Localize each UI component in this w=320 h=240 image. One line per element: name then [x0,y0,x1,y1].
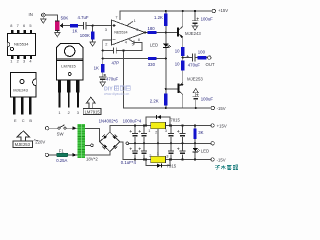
psu capacitor C3 [168,133,174,136]
svg-text:4.7uF: 4.7uF [78,15,89,20]
svg-text:47P: 47P [112,61,120,66]
wire LED to feedback tap [165,48,167,89]
ground arrow below 100K [90,42,95,46]
psu capacitor C2 [139,130,148,137]
LED bias [163,43,171,48]
svg-text:470uF: 470uF [188,62,201,67]
wire 47P to pin8 corner [117,39,142,51]
resistor 1K feedback [101,64,104,73]
wire 100K to ground [92,40,94,43]
svg-text:1: 1 [148,128,150,133]
switch SW [58,125,66,129]
psu capacitor C1 [130,130,139,137]
wire 470uF to ground [102,80,104,82]
wire 7815 gnd pin to mid rail [157,129,159,144]
junction 1.2K rail [165,10,167,12]
capacitor 100uF bottom bypass [192,94,199,100]
wire pot bottom to ground [56,31,58,33]
svg-text:6: 6 [136,27,138,32]
svg-text:470uF: 470uF [106,77,119,82]
junction pin4 line A [122,49,124,51]
svg-text:1K: 1K [72,28,77,33]
ground arrow below IN terminal [41,17,46,23]
plus sign output cap [187,55,189,57]
wire Q1 emitter to 10 ohm [179,34,183,47]
junction bypass right bottom [169,158,171,160]
wire psu cap column 3 bottom [170,143,172,151]
psu capacitor C6 [139,148,148,155]
svg-text:2: 2 [155,129,157,134]
wire bottom bypass cap to ground arrow [195,93,197,96]
svg-text:MJE253: MJE253 [15,142,31,147]
junction at op-amp output [144,31,146,33]
svg-text:1K: 1K [94,65,99,70]
wire psu cap column 4 top [182,126,184,134]
op-amp U1 NE5534 triangle [112,20,145,45]
protection diode bottom [157,164,162,168]
svg-text:8: 8 [138,37,140,42]
terminal IN [41,13,45,17]
svg-text:1: 1 [157,151,159,156]
svg-text:3: 3 [105,27,107,32]
svg-text:100K: 100K [80,33,90,38]
bridge diode D1 [102,134,107,139]
junction dots mid rail [134,142,136,144]
svg-text:5: 5 [132,41,134,46]
annotation arrow MJE253 [13,131,33,148]
wire psu cap column 3 top [170,126,172,134]
svg-text:0.1uF*4: 0.1uF*4 [121,160,137,165]
terminal GND psu [211,142,214,145]
svg-text:5: 5 [29,23,31,28]
wire secondary top to bridge left [85,129,99,142]
svg-text:1: 1 [134,18,136,23]
psu capacitor C8 [177,148,186,155]
resistor 1K input [70,24,78,27]
svg-text:+15V: +15V [218,8,228,13]
wire pot wiper to 1K [62,25,70,27]
resistor 1.2K [164,14,167,27]
psu capacitor C4 [177,130,186,137]
svg-text:7: 7 [115,15,117,20]
svg-text:www.diyaudio.cn: www.diyaudio.cn [104,92,129,96]
svg-text:C: C [22,118,25,123]
wire bias to 2.2K [165,89,167,94]
wire bottom supply rail -15V (amp) [124,51,212,109]
svg-text:-15V: -15V [217,158,226,163]
svg-text:LM7815: LM7815 [61,63,76,68]
watermark DIY audio [104,86,130,96]
svg-text:3: 3 [166,154,168,159]
wire 1.2K bottom lead [165,26,167,33]
protection diode top [156,115,161,119]
svg-text:1.2K: 1.2K [154,15,163,20]
junction bypass left bottom [145,158,147,160]
svg-text:2: 2 [68,110,70,115]
svg-text:7915: 7915 [167,164,177,169]
junction pin2 line B [102,57,104,59]
svg-text:F1: F1 [59,148,65,153]
svg-text:10: 10 [175,62,180,67]
svg-text:MJE243: MJE243 [13,87,28,92]
capacitor 47P [113,48,116,54]
svg-text:1000uF*4: 1000uF*4 [123,118,142,123]
junction dots top raw rail [134,124,136,126]
svg-text:3: 3 [77,110,79,115]
wire 470uF to 100 [196,57,198,59]
svg-text:330: 330 [148,62,156,67]
capacitor 470uF feedback [99,74,106,80]
svg-text:2: 2 [105,42,107,47]
wire bottom bypass cap column [195,100,197,108]
svg-text:OUT: OUT [206,62,215,67]
wire AC live to switch [49,127,58,129]
node junction input [92,25,94,27]
wire top bypass cap to ground [194,24,196,26]
wire bridge top to +raw rail [110,126,211,133]
junction bias MJE253 base [165,88,167,90]
svg-text:0.25A: 0.25A [56,158,67,163]
PSU wires [49,117,211,166]
wire 7915 bypass loop [146,160,170,166]
resistor 3K [193,129,196,140]
wire psu cap column 1 bottom [134,143,136,151]
svg-text:IN: IN [29,12,33,17]
wire Rg 1K to 470uF [102,73,104,77]
psu capacitor C5 [130,148,139,155]
junction node B [165,31,167,33]
label 220V [34,139,38,142]
svg-text:220V: 220V [35,139,45,144]
terminal -15V psu [211,158,214,161]
svg-text:2: 2 [149,153,151,158]
ground arrow above 100uF bottom [193,89,198,93]
junction output node [182,57,184,59]
svg-text:NE5534: NE5534 [114,31,127,35]
terminal AC neutral [45,153,48,156]
terminal center tap [91,144,94,147]
arrow into primary top [72,126,76,130]
wire 330 to bias column [157,57,166,59]
signature 子木整理 drawn as strokes [215,165,238,170]
svg-text:6: 6 [23,23,25,28]
fuse F1 [57,153,69,157]
wire cap to op-amp pin3 [86,25,111,27]
svg-text:NE5534: NE5534 [14,41,29,46]
junction 100uF top rail [194,10,196,12]
svg-text:7: 7 [17,23,19,28]
wire mid rail [128,142,211,144]
junction dots bottom raw rail [134,158,136,160]
annotation arrow LM7915 [83,97,101,114]
arrow into primary bottom [72,153,76,157]
transformer T1 [78,124,86,158]
wire pin5 stub [133,40,135,44]
svg-text:8: 8 [10,23,12,28]
wire node to 100K [92,26,94,32]
svg-text:10: 10 [175,49,180,54]
wire psu cap column 1 top [134,126,136,134]
svg-text:LM7915: LM7915 [85,110,101,115]
terminal AC live [45,127,48,130]
wire bias tap to MJE253 base [166,88,178,90]
terminal +15V amp [212,9,215,12]
junction 100uF bottom rail [195,107,197,109]
wire top supply rail +15V [120,11,213,20]
bridge diode D2 [113,134,118,139]
wire top bypass cap column [194,11,196,21]
svg-text:LED: LED [150,42,158,47]
capacitor 470uF output [193,54,196,62]
wire input from IN terminal to pot [45,15,57,21]
wire 180 to node B [157,32,177,34]
svg-text:50K: 50K [61,15,69,20]
bridge diode D4 [113,144,118,149]
wire bridge right to -raw rail [120,142,211,160]
wire switch to transformer [66,127,77,129]
svg-text:3: 3 [165,128,167,133]
svg-text:B: B [29,118,32,123]
wire lower 10 ohm to Q2 emitter [179,71,183,87]
svg-text:1: 1 [58,110,60,115]
package drawing Q1 MJE243 TO-126 [11,73,37,124]
regulator 7915 [151,156,166,162]
wire Q2 collector to rail [179,91,183,108]
wire 10 ohm to output node [182,56,184,61]
svg-text:180: 180 [148,26,156,31]
svg-text:2: 2 [17,59,19,64]
wire 100 to OUT terminal [207,57,208,59]
psu capacitor C7 [168,151,174,154]
wire AC neutral to fuse [49,154,57,156]
svg-text:SW: SW [57,131,65,136]
svg-text:-15V: -15V [217,106,226,111]
transistor Q1 MJE243 [177,27,183,38]
wire 3K LED column [194,126,196,129]
wire psu cap column 2 bottom [143,143,145,151]
resistor 100 output [198,56,207,59]
wire 7815 bypass loop [146,117,170,126]
resistor 180 [148,31,157,34]
wire line A pin2 to 47P [103,50,113,52]
capacitor 100uF top bypass [192,17,199,23]
resistor 100K [91,32,94,40]
svg-text:100uF: 100uF [201,96,214,101]
terminal -15V amp [211,106,214,109]
transistor Q2 MJE253 [178,83,184,93]
resistor 10 lower [181,61,184,71]
bridge rectifier [100,132,120,152]
svg-text:18V*2: 18V*2 [86,156,98,161]
wire bias column node B to LED [165,33,167,44]
ground arrow below 100uF top [192,26,197,30]
svg-text:7815: 7815 [170,118,180,123]
svg-text:MJE243: MJE243 [185,31,201,36]
wire opamp output to 180 [145,32,148,34]
wire 1K to cap [78,25,83,27]
svg-text:1: 1 [10,59,12,64]
ground arrow below pot [55,33,60,37]
junction bias feedback tap [165,57,167,59]
terminal +15V psu [211,124,214,127]
wire feedback line B [103,57,148,59]
wire 1.2K top lead [165,11,167,14]
wire pin2 lead and feedback column [103,40,112,64]
bridge diode D3 [102,144,107,149]
svg-text:100: 100 [198,50,206,55]
wire Q1 collector to rail [179,11,183,30]
svg-text:3: 3 [23,59,25,64]
potentiometer 50K [55,21,63,31]
regulator 7815 [151,122,166,128]
LED pilot [193,148,201,152]
wire psu cap column 4 bottom [182,143,184,151]
wire 7915 gnd pin to mid rail [157,143,159,156]
capacitor 4.7uF input [84,22,86,30]
resistor 330 feedback [148,57,157,60]
svg-text:+15V: +15V [217,124,227,129]
svg-text:E: E [14,118,17,123]
svg-text:LED: LED [201,148,209,153]
svg-text:3K: 3K [198,130,203,135]
resistor 2.2K [164,94,167,106]
wire psu cap column 2 top [143,126,145,134]
junction bypass right top [169,124,171,126]
svg-text:2.2K: 2.2K [150,98,159,103]
junction pin2 line A [102,49,104,51]
wire secondary bottom to bridge bottom [85,152,110,155]
ground arrow below 470uF [100,82,105,86]
terminal OUT [208,56,211,59]
resistor 10 upper [181,47,184,56]
mid rail left terminal [126,142,129,145]
svg-text:1N4002*6: 1N4002*6 [99,118,119,123]
svg-text:MJE253: MJE253 [187,77,203,82]
wire pin1 stub [127,21,133,25]
svg-text:100uF: 100uF [201,16,214,21]
junction bypass left top [145,124,147,126]
wire output node to 470uF out cap [183,57,192,59]
junction 2.2K rail [165,107,167,109]
package drawing U1 NE5534 DIP-8 [8,23,36,63]
wire fuse to transformer [68,154,78,156]
junction Q1 collector rail [182,10,184,12]
wire center tap stub [85,144,91,146]
wire 2.2K to rail [165,106,167,109]
package drawing U3 LM7815 TO-220 [56,43,83,115]
